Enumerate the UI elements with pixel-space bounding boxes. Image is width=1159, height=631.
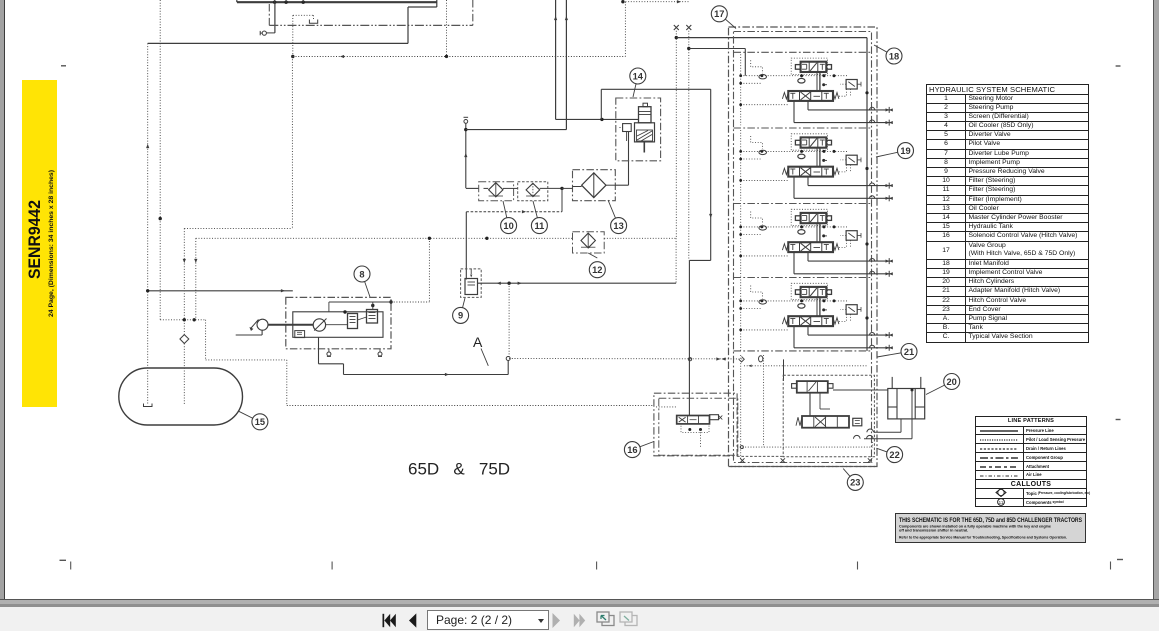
last page (disabled)	[574, 614, 585, 627]
suction strainer in tank	[144, 404, 153, 407]
LS step lines	[751, 60, 763, 73]
main control spool	[788, 242, 833, 252]
valve section separator	[734, 203, 872, 205]
wire: dotted vertical x=446.5 (from top)	[446, 0, 448, 56]
callout 22 hitch control valve	[876, 448, 894, 454]
filter 11 (steering)	[518, 182, 548, 201]
pilot valve (dotted envelope)	[791, 58, 827, 74]
svg-text:16: 16	[627, 445, 637, 455]
crop marks	[61, 65, 66, 67]
LS step lines	[751, 212, 763, 225]
test port T1	[266, 32, 275, 34]
wire: dotted x=184.3 down to tank	[183, 228, 185, 334]
compensator/relief valve	[846, 80, 857, 90]
wire: steering circuit bus (top, cut off)	[237, 1, 437, 3]
wire: cylinder drain lines	[900, 419, 902, 432]
svg-text:12: 12	[592, 265, 602, 275]
filter 10 (steering)	[479, 182, 514, 201]
pilot rail dotted lines	[741, 300, 848, 302]
callout 20 hitch cylinders	[926, 382, 952, 395]
wire: supply risers x=555.6 and x=566.4	[555, 0, 557, 119]
callout 15 hydraulic tank	[239, 411, 260, 422]
svg-text:8: 8	[359, 269, 364, 279]
load sense shuttle oval	[759, 75, 767, 79]
quick couplers	[886, 334, 890, 337]
svg-text:24 Page, (Dimensions: 34 inche: 24 Page, (Dimensions: 34 inches x 28 inc…	[48, 170, 55, 317]
svg-text:off and transmission shifter i: off and transmission shifter in neutral.	[899, 529, 968, 533]
plugged ports x marks	[674, 25, 679, 30]
svg-text:22: 22	[889, 450, 899, 460]
compensator/relief valve	[846, 305, 857, 315]
pressure reducing valve 9	[461, 269, 482, 298]
drain check valves below pump box	[328, 349, 330, 352]
load sense shuttle oval	[759, 226, 767, 230]
end cover bottom border	[729, 466, 878, 468]
spool end springs	[782, 93, 788, 99]
work port lines	[807, 326, 809, 335]
adapter manifold separator	[734, 350, 872, 352]
wire: drain dotted x=147.7	[147, 43, 149, 403]
solenoid control valve 16 box outer	[654, 393, 737, 456]
valve section separator	[734, 127, 872, 129]
supply tap	[865, 316, 868, 319]
wire: supply to booster	[602, 118, 639, 120]
wire: drain gallery dotted y=447.1	[737, 446, 873, 448]
work port lines	[807, 177, 809, 186]
pilot solenoid caps	[795, 290, 800, 295]
wire into valve 16 pilot	[689, 416, 691, 424]
pilot valve body	[801, 213, 827, 223]
wire: dotted x=292.4 vertical	[291, 57, 293, 229]
detach icon 2 (disabled)	[620, 612, 637, 626]
compensator valve 1	[348, 314, 358, 329]
svg-text:13: 13	[613, 221, 623, 231]
valve section separator	[734, 51, 872, 53]
supply tap	[865, 242, 868, 245]
wire: dotted path to hydraulic tank / box16	[160, 319, 205, 321]
pilot rail dotted lines	[741, 150, 848, 152]
hitch pilot feed line	[783, 359, 785, 381]
wire: dotted y=228.4 horizontal	[184, 227, 292, 229]
pilot valve body	[801, 287, 827, 297]
supply tap	[865, 91, 868, 94]
callout 13 oil cooler	[608, 200, 619, 226]
callout 12 filter implement	[589, 262, 605, 278]
pilot valve (dotted envelope)	[791, 209, 827, 225]
pump internal links	[326, 324, 348, 326]
charge pump circle	[257, 319, 268, 330]
wire: solid return y=290.8	[148, 290, 293, 292]
compensator/relief valve	[846, 155, 857, 165]
svg-text:A: A	[473, 334, 483, 350]
wire: load-sensing dotted line y=56.5	[293, 56, 626, 58]
callout 14 master cylinder power booster	[633, 76, 638, 97]
callout 10 filter steering	[503, 201, 509, 226]
pilot valve (dotted envelope)	[791, 283, 827, 299]
booster cylinder	[639, 107, 652, 123]
pilot-to-spool links	[819, 297, 821, 316]
svg-text:14: 14	[633, 71, 644, 81]
LS step lines	[751, 136, 763, 149]
filter line into filters	[466, 187, 479, 189]
dropdown arrow	[529, 618, 535, 622]
bridge line to box16	[737, 455, 783, 457]
pilot-to-spool links	[819, 148, 821, 167]
note box	[895, 513, 1086, 543]
work port lines	[807, 101, 809, 110]
svg-text:19: 19	[900, 146, 910, 156]
callout 17 valve group	[719, 14, 736, 29]
svg-text:65D & 75D: 65D & 75D	[408, 460, 510, 479]
valve 16 actuator	[710, 415, 719, 420]
svg-text:9: 9	[458, 311, 463, 321]
shuttle oval on drain gallery	[759, 356, 763, 362]
wires from hitch valve to cylinders	[833, 389, 888, 391]
load sense shuttle oval	[759, 300, 767, 304]
LS step lines	[751, 286, 763, 299]
master cylinder power booster 14	[616, 98, 661, 161]
screen (differential) diamond	[180, 335, 189, 344]
wire: branch from top bus down	[274, 2, 276, 33]
svg-text:17: 17	[714, 9, 724, 19]
shuttle under pilot	[798, 230, 805, 235]
svg-text:20: 20	[947, 377, 957, 387]
load sense shuttle oval	[759, 150, 767, 154]
tank vent symbol (small reservoir)	[293, 14, 314, 16]
pilot valve body	[801, 137, 827, 147]
node junctions on top bus	[273, 1, 276, 4]
hitch cylinders 20	[888, 389, 925, 419]
cooler outlet up to booster line	[615, 184, 628, 186]
prev page button	[409, 613, 416, 627]
pilot valve body	[801, 62, 827, 72]
svg-text:SENR9442: SENR9442	[25, 200, 44, 279]
wire: steering supply with vent	[464, 116, 469, 118]
svg-text:23: 23	[850, 478, 860, 488]
hitch main valve	[802, 416, 849, 428]
wire: dotted vertical x=625.4 to top edge	[624, 2, 626, 57]
wavy crossing bumps	[854, 435, 861, 438]
svg-text:11: 11	[999, 500, 1004, 505]
viewer chrome	[0, 0, 5, 600]
wire: pressure supply to valve group y=37.6	[675, 36, 678, 39]
wire: dotted x=195.8	[195, 238, 197, 319]
pilot-to-spool links	[819, 72, 821, 91]
wire: long drop x=710.7 to adapter	[710, 89, 712, 260]
node junctions lower left	[183, 318, 186, 321]
wire: dotted x=509.1 down to A circle	[508, 283, 510, 356]
node A connection circle	[506, 357, 510, 361]
svg-text:11: 11	[534, 221, 544, 231]
wire: dotted pilot drain y=359	[509, 358, 744, 360]
main control spool	[788, 91, 833, 101]
detach icon 1	[597, 612, 614, 626]
svg-text:21: 21	[904, 347, 914, 357]
pump shaft	[268, 324, 313, 326]
valve group 17 inner border	[734, 32, 872, 463]
pilot rail dotted lines	[741, 226, 848, 228]
shuttle under pilot	[798, 304, 805, 309]
pilot valve (dotted envelope)	[791, 134, 827, 150]
wire: return line y=43	[148, 42, 408, 44]
callout 16 solenoid control valve	[632, 442, 654, 450]
spool end springs	[782, 244, 788, 250]
wire: dotted x=676.1 link	[675, 238, 677, 283]
svg-text:THIS SCHEMATIC IS FOR THE 65D,: THIS SCHEMATIC IS FOR THE 65D, 75D and 8…	[899, 517, 1083, 524]
coupler diamond at group edge	[739, 356, 745, 362]
box 16 inner border	[659, 398, 738, 455]
wire: dotted y=238.3 horizontal long	[196, 237, 573, 239]
leader for A	[481, 349, 488, 366]
svg-text:10: 10	[503, 221, 513, 231]
legend table	[926, 84, 1089, 343]
spool end springs	[782, 318, 788, 324]
wire: supply into hitch valve	[866, 345, 868, 351]
callout 9 pressure reducing valve	[461, 298, 465, 315]
links pilot-main	[809, 393, 811, 416]
yellow banner	[22, 80, 57, 407]
hydraulic tank 15	[119, 368, 243, 425]
implement pump circle	[313, 319, 325, 331]
component group box: implement pump 8	[286, 297, 391, 348]
main control spool	[788, 167, 833, 177]
compensator/relief valve	[846, 231, 857, 241]
wire: dotted drops from plugs	[675, 31, 677, 239]
quick couplers	[886, 184, 890, 187]
svg-text:Refer to the appropriate Servi: Refer to the appropriate Service Manual …	[899, 536, 1067, 540]
wire: pump case drain to A	[318, 337, 320, 364]
filter 12 (implement)	[573, 232, 605, 253]
callout 21 adapter manifold	[877, 352, 909, 358]
wire: dotted drop from tank vent to LS line	[292, 15, 294, 56]
valve group 17 outer border	[729, 27, 878, 467]
hitch pilot rails	[740, 355, 742, 460]
wire: pilot supply y=48.5	[687, 47, 690, 50]
valve section separator	[734, 277, 872, 279]
line patterns legend	[975, 416, 1087, 507]
callout 11 filter steering	[533, 201, 539, 226]
stubs to top edge	[236, 0, 238, 2]
pilot rail dotted lines	[741, 75, 848, 77]
control orifice block	[295, 331, 305, 338]
attachment boundary dash-dot line	[268, 4, 270, 25]
supply tap	[865, 167, 868, 170]
pilot solenoid caps	[795, 65, 800, 70]
wire: drain dotted x=160.2	[159, 0, 161, 320]
hitch valve actuator cap	[853, 418, 862, 426]
next page (disabled)	[553, 613, 561, 628]
pilot solenoid caps	[795, 216, 800, 221]
shuttle under pilot	[798, 154, 805, 159]
booster pilot valve	[623, 124, 632, 132]
shuttle under pilot	[798, 78, 805, 83]
toolbar widgets	[370, 607, 660, 631]
callout 19 implement control valve	[876, 151, 906, 157]
pilot-to-spool links	[819, 223, 821, 242]
main control spool	[788, 316, 833, 326]
hitch pilot valve	[797, 381, 828, 393]
quick couplers	[886, 260, 890, 263]
oil cooler 13	[573, 170, 616, 201]
callout 23 end cover	[843, 469, 855, 483]
wire: dotted line along top edge	[625, 1, 688, 3]
first page button	[383, 614, 396, 627]
spool end springs	[782, 168, 788, 174]
quick couplers	[886, 108, 890, 111]
dashed sub-env below valve 16	[681, 424, 709, 433]
work port lines	[807, 252, 809, 261]
callout 18 inlet manifold	[874, 45, 894, 56]
wire: reduced pressure line y=283.2	[478, 282, 677, 284]
wire from filters down to return	[560, 187, 563, 190]
pump inner housing	[293, 312, 383, 338]
svg-text:15: 15	[255, 417, 265, 427]
callout 8 implement pump	[362, 274, 370, 297]
hitch control valve sub-box	[783, 375, 874, 457]
suction line from tank	[236, 334, 262, 336]
svg-text:18: 18	[889, 51, 899, 61]
booster body	[635, 123, 655, 142]
solenoid valve in 16	[677, 416, 710, 424]
compensator valve 2	[367, 310, 378, 324]
pilot solenoid caps	[795, 140, 800, 145]
wire: pump outlet signal dotted	[391, 301, 429, 303]
